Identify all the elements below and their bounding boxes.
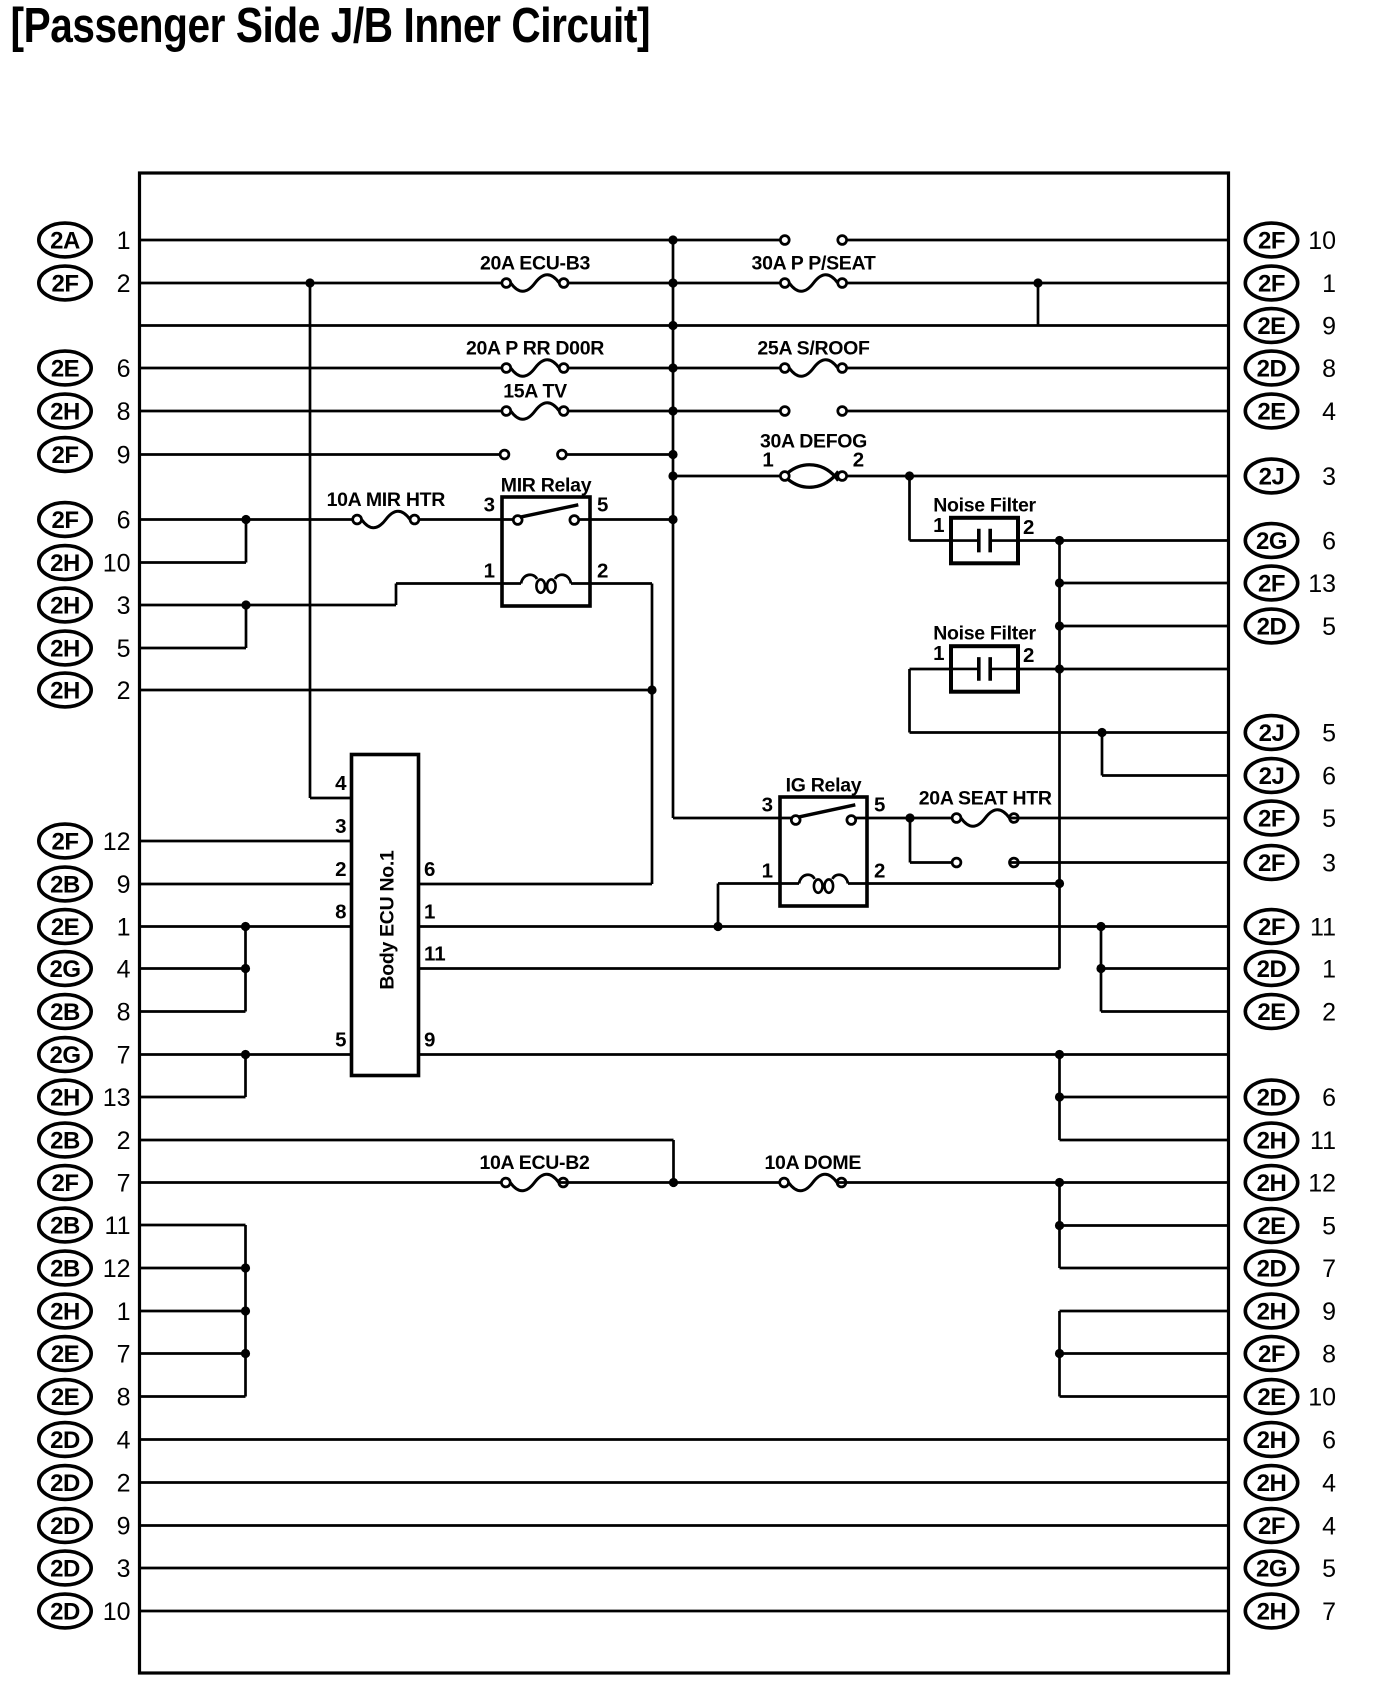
svg-text:13: 13 bbox=[103, 1084, 131, 1112]
svg-text:2B: 2B bbox=[50, 1213, 80, 1240]
svg-text:2A: 2A bbox=[50, 228, 80, 255]
svg-text:9: 9 bbox=[117, 871, 131, 899]
svg-text:5: 5 bbox=[597, 494, 608, 517]
svg-text:2D: 2D bbox=[1257, 956, 1287, 983]
svg-text:2F: 2F bbox=[1258, 1513, 1285, 1540]
svg-text:2: 2 bbox=[117, 677, 131, 705]
svg-text:4: 4 bbox=[1322, 1470, 1336, 1498]
svg-text:2H: 2H bbox=[50, 1085, 80, 1112]
svg-text:2G: 2G bbox=[49, 956, 80, 983]
svg-text:2: 2 bbox=[117, 1470, 131, 1498]
svg-text:4: 4 bbox=[117, 956, 131, 984]
svg-text:3: 3 bbox=[117, 592, 131, 620]
svg-text:15A TV: 15A TV bbox=[503, 381, 567, 403]
svg-text:2F: 2F bbox=[51, 271, 78, 298]
svg-text:2F: 2F bbox=[1258, 806, 1285, 833]
svg-text:2H: 2H bbox=[1257, 1299, 1287, 1326]
svg-text:1: 1 bbox=[424, 901, 435, 924]
svg-text:2: 2 bbox=[1023, 644, 1034, 667]
svg-text:2J: 2J bbox=[1259, 720, 1285, 747]
svg-text:5: 5 bbox=[335, 1029, 346, 1052]
svg-text:2D: 2D bbox=[50, 1427, 80, 1454]
svg-text:2E: 2E bbox=[1257, 313, 1286, 340]
svg-text:1: 1 bbox=[484, 560, 495, 583]
svg-text:2: 2 bbox=[117, 1127, 131, 1155]
svg-text:Noise Filter: Noise Filter bbox=[933, 494, 1036, 516]
svg-text:10: 10 bbox=[1308, 227, 1336, 255]
svg-text:8: 8 bbox=[1322, 1341, 1336, 1369]
svg-text:2B: 2B bbox=[50, 999, 80, 1026]
svg-text:5: 5 bbox=[1322, 613, 1336, 641]
svg-text:5: 5 bbox=[1322, 1213, 1336, 1241]
svg-text:1: 1 bbox=[933, 514, 944, 537]
svg-text:6: 6 bbox=[424, 858, 435, 881]
svg-text:2D: 2D bbox=[1257, 1085, 1287, 1112]
svg-text:10A DOME: 10A DOME bbox=[765, 1152, 862, 1174]
svg-text:3: 3 bbox=[484, 494, 495, 517]
svg-text:9: 9 bbox=[117, 1513, 131, 1541]
svg-text:2E: 2E bbox=[1257, 1384, 1286, 1411]
svg-text:3: 3 bbox=[117, 1555, 131, 1583]
svg-text:2: 2 bbox=[874, 860, 885, 883]
svg-text:2E: 2E bbox=[1257, 399, 1286, 426]
svg-text:2D: 2D bbox=[1257, 356, 1287, 383]
svg-text:2: 2 bbox=[1023, 516, 1034, 539]
svg-text:2D: 2D bbox=[50, 1556, 80, 1583]
svg-text:7: 7 bbox=[1322, 1255, 1336, 1283]
svg-text:2H: 2H bbox=[1257, 1170, 1287, 1197]
svg-text:9: 9 bbox=[424, 1029, 435, 1052]
svg-text:2J: 2J bbox=[1259, 763, 1285, 790]
svg-text:5: 5 bbox=[874, 794, 885, 817]
svg-text:1: 1 bbox=[762, 860, 773, 883]
svg-text:6: 6 bbox=[117, 507, 131, 535]
svg-text:IG Relay: IG Relay bbox=[786, 775, 862, 797]
svg-text:1: 1 bbox=[117, 227, 131, 255]
svg-text:2E: 2E bbox=[51, 356, 80, 383]
svg-text:2E: 2E bbox=[1257, 999, 1286, 1026]
svg-text:10A MIR HTR: 10A MIR HTR bbox=[327, 489, 446, 511]
svg-text:5: 5 bbox=[1322, 720, 1336, 748]
svg-text:8: 8 bbox=[335, 901, 346, 924]
svg-text:6: 6 bbox=[117, 355, 131, 383]
svg-text:2E: 2E bbox=[51, 1384, 80, 1411]
svg-text:8: 8 bbox=[117, 999, 131, 1027]
svg-text:8: 8 bbox=[117, 1384, 131, 1412]
svg-text:2G: 2G bbox=[49, 1042, 80, 1069]
svg-text:25A S/ROOF: 25A S/ROOF bbox=[757, 338, 870, 360]
svg-text:9: 9 bbox=[1322, 313, 1336, 341]
svg-text:9: 9 bbox=[117, 442, 131, 470]
svg-text:2B: 2B bbox=[50, 1128, 80, 1155]
svg-text:13: 13 bbox=[1308, 570, 1336, 598]
svg-text:7: 7 bbox=[117, 1170, 131, 1198]
svg-text:2D: 2D bbox=[1257, 614, 1287, 641]
svg-text:2F: 2F bbox=[1258, 228, 1285, 255]
svg-text:2: 2 bbox=[597, 560, 608, 583]
svg-text:2: 2 bbox=[117, 270, 131, 298]
svg-text:2H: 2H bbox=[50, 593, 80, 620]
svg-text:2E: 2E bbox=[1257, 1213, 1286, 1240]
svg-text:5: 5 bbox=[117, 635, 131, 663]
svg-text:5: 5 bbox=[1322, 1555, 1336, 1583]
svg-text:2H: 2H bbox=[50, 678, 80, 705]
svg-text:2B: 2B bbox=[50, 872, 80, 899]
svg-text:2H: 2H bbox=[50, 1299, 80, 1326]
svg-text:3: 3 bbox=[1322, 463, 1336, 491]
svg-text:3: 3 bbox=[1322, 850, 1336, 878]
svg-text:10: 10 bbox=[1308, 1384, 1336, 1412]
svg-text:1: 1 bbox=[117, 914, 131, 942]
svg-text:2F: 2F bbox=[51, 507, 78, 534]
svg-text:7: 7 bbox=[117, 1341, 131, 1369]
svg-text:6: 6 bbox=[1322, 528, 1336, 556]
svg-text:2J: 2J bbox=[1259, 464, 1285, 491]
svg-text:10: 10 bbox=[103, 550, 131, 578]
svg-text:2F: 2F bbox=[51, 829, 78, 856]
svg-text:30A DEFOG: 30A DEFOG bbox=[760, 431, 867, 453]
svg-text:2G: 2G bbox=[1256, 528, 1287, 555]
svg-text:2D: 2D bbox=[1257, 1256, 1287, 1283]
svg-text:10A ECU-B2: 10A ECU-B2 bbox=[479, 1152, 590, 1174]
svg-text:2H: 2H bbox=[50, 399, 80, 426]
svg-text:2E: 2E bbox=[51, 914, 80, 941]
svg-text:8: 8 bbox=[1322, 355, 1336, 383]
svg-text:2D: 2D bbox=[50, 1470, 80, 1497]
svg-text:1: 1 bbox=[1322, 270, 1336, 298]
svg-text:8: 8 bbox=[117, 398, 131, 426]
svg-text:3: 3 bbox=[335, 815, 346, 838]
svg-text:9: 9 bbox=[1322, 1298, 1336, 1326]
svg-text:1: 1 bbox=[933, 642, 944, 665]
svg-text:10: 10 bbox=[103, 1598, 131, 1626]
svg-text:Body ECU No.1: Body ECU No.1 bbox=[377, 850, 399, 990]
svg-text:2F: 2F bbox=[1258, 571, 1285, 598]
svg-text:2E: 2E bbox=[51, 1341, 80, 1368]
svg-text:11: 11 bbox=[1310, 1127, 1336, 1155]
svg-text:6: 6 bbox=[1322, 1427, 1336, 1455]
svg-text:2F: 2F bbox=[51, 1170, 78, 1197]
svg-text:30A P P/SEAT: 30A P P/SEAT bbox=[752, 253, 876, 275]
svg-text:2B: 2B bbox=[50, 1256, 80, 1283]
svg-text:2H: 2H bbox=[1257, 1470, 1287, 1497]
svg-text:2F: 2F bbox=[1258, 850, 1285, 877]
svg-text:12: 12 bbox=[103, 828, 131, 856]
svg-text:6: 6 bbox=[1322, 1084, 1336, 1112]
svg-text:1: 1 bbox=[762, 449, 773, 472]
svg-text:1: 1 bbox=[117, 1298, 131, 1326]
svg-text:2: 2 bbox=[1322, 999, 1336, 1027]
svg-text:7: 7 bbox=[1322, 1598, 1336, 1626]
svg-text:2: 2 bbox=[853, 449, 864, 472]
svg-text:6: 6 bbox=[1322, 763, 1336, 791]
svg-text:4: 4 bbox=[117, 1427, 131, 1455]
svg-text:20A SEAT HTR: 20A SEAT HTR bbox=[919, 788, 1052, 810]
svg-text:2: 2 bbox=[335, 858, 346, 881]
svg-text:2D: 2D bbox=[50, 1599, 80, 1626]
svg-text:11: 11 bbox=[105, 1212, 131, 1240]
svg-text:12: 12 bbox=[1308, 1170, 1336, 1198]
svg-text:2H: 2H bbox=[1257, 1599, 1287, 1626]
svg-text:1: 1 bbox=[1322, 956, 1336, 984]
svg-text:5: 5 bbox=[1322, 805, 1336, 833]
svg-text:MIR Relay: MIR Relay bbox=[501, 475, 592, 497]
svg-text:4: 4 bbox=[1322, 398, 1336, 426]
svg-text:20A P RR D00R: 20A P RR D00R bbox=[466, 338, 604, 360]
svg-text:2F: 2F bbox=[1258, 1341, 1285, 1368]
svg-text:7: 7 bbox=[117, 1042, 131, 1070]
svg-text:4: 4 bbox=[335, 772, 347, 795]
svg-text:12: 12 bbox=[103, 1255, 131, 1283]
svg-text:4: 4 bbox=[1322, 1513, 1336, 1541]
svg-text:11: 11 bbox=[1310, 914, 1336, 942]
svg-text:20A ECU-B3: 20A ECU-B3 bbox=[480, 253, 591, 275]
svg-text:2H: 2H bbox=[1257, 1427, 1287, 1454]
svg-text:2F: 2F bbox=[1258, 914, 1285, 941]
svg-text:Noise Filter: Noise Filter bbox=[933, 623, 1036, 645]
svg-text:2F: 2F bbox=[1258, 271, 1285, 298]
svg-text:[Passenger Side J/B Inner Circ: [Passenger Side J/B Inner Circuit] bbox=[11, 0, 651, 53]
svg-text:2F: 2F bbox=[51, 442, 78, 469]
svg-text:2H: 2H bbox=[50, 550, 80, 577]
svg-text:2D: 2D bbox=[50, 1513, 80, 1540]
svg-text:2H: 2H bbox=[1257, 1128, 1287, 1155]
svg-text:3: 3 bbox=[762, 794, 773, 817]
svg-text:11: 11 bbox=[424, 943, 446, 966]
svg-text:2H: 2H bbox=[50, 636, 80, 663]
svg-text:2G: 2G bbox=[1256, 1556, 1287, 1583]
